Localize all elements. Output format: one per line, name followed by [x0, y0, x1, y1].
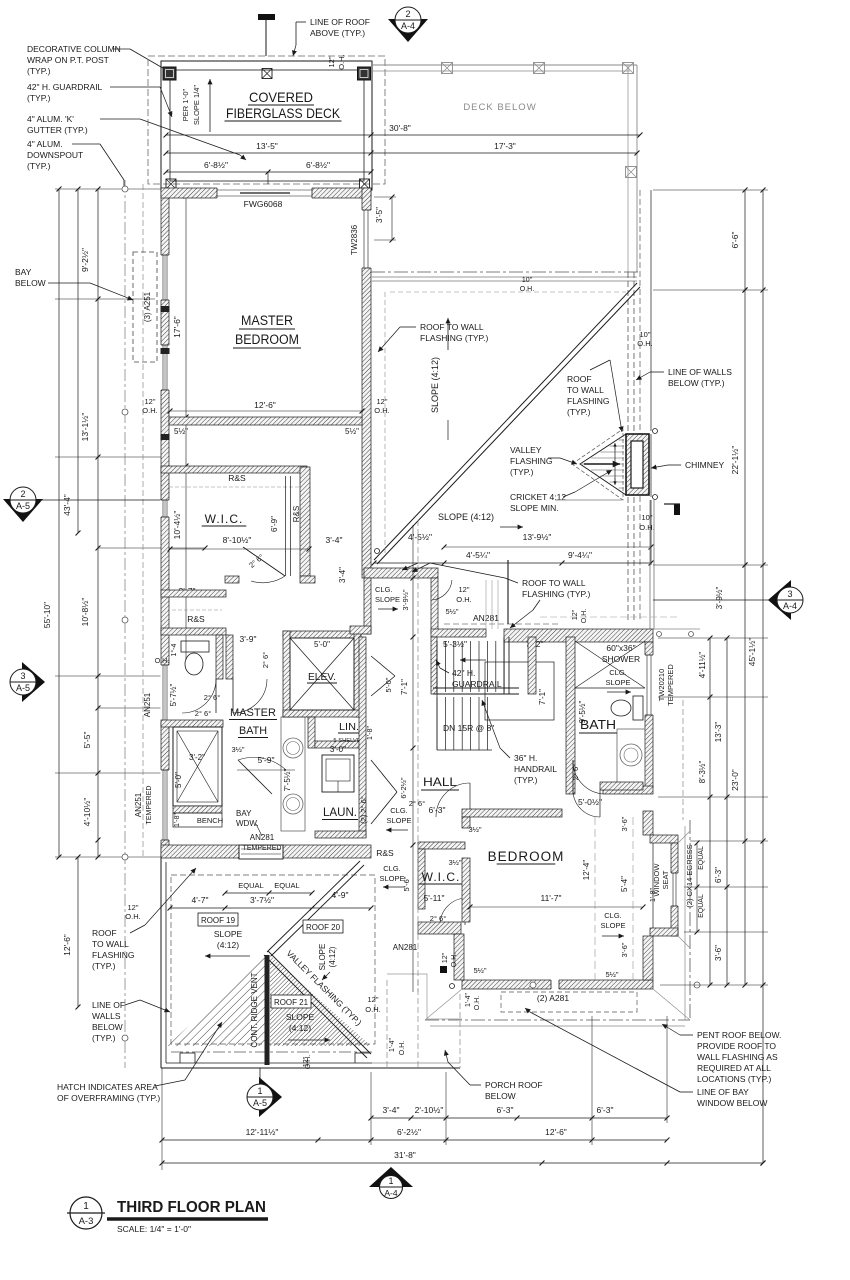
svg-text:ELEV.: ELEV.: [308, 671, 336, 683]
shower 60x36: [575, 687, 645, 689]
svg-text:A-4: A-4: [401, 21, 415, 31]
svg-text:HANDRAIL: HANDRAIL: [514, 764, 557, 774]
svg-text:SLOPE: SLOPE: [379, 874, 404, 883]
svg-text:3'-6": 3'-6": [620, 816, 629, 831]
small notches bottom: [179, 1053, 181, 1063]
svg-text:12'-11½": 12'-11½": [246, 1127, 279, 1137]
lower flight: [436, 697, 438, 750]
top dash-dot boundary: [371, 271, 640, 273]
section 1/A-5: [259, 1077, 282, 1117]
svg-text:SLOPE: SLOPE: [605, 678, 630, 687]
dash-dot grid line w circles: [124, 180, 126, 1068]
top wall w FWG6068: [161, 188, 371, 198]
svg-text:7'-1": 7'-1": [538, 689, 547, 705]
svg-text:O.H.: O.H.: [456, 595, 471, 604]
right extension lines: [653, 564, 768, 566]
svg-text:A-4: A-4: [384, 1188, 398, 1198]
svg-text:2° 6°: 2° 6°: [204, 693, 220, 702]
svg-text:FLASHING: FLASHING: [567, 396, 610, 406]
svg-text:12": 12": [572, 609, 579, 620]
svg-text:12'-4": 12'-4": [582, 860, 591, 881]
svg-text:TO WALL: TO WALL: [567, 385, 604, 395]
extension verticals bottom: [161, 1068, 163, 1170]
svg-text:3'-4": 3'-4": [338, 567, 347, 583]
svg-text:AN251: AN251: [134, 792, 143, 817]
svg-text:CRICKET 4:12: CRICKET 4:12: [510, 492, 566, 502]
svg-text:BENCH: BENCH: [197, 816, 223, 825]
svg-text:SLOPE: SLOPE: [286, 1012, 315, 1022]
svg-text:O.H.: O.H.: [142, 406, 157, 415]
svg-text:ROOF 20: ROOF 20: [306, 923, 341, 932]
bay window bump: [239, 845, 283, 859]
svg-text:TW20210: TW20210: [657, 669, 666, 702]
svg-text:BEDROOM: BEDROOM: [235, 332, 299, 347]
svg-text:SLOPE: SLOPE: [386, 816, 411, 825]
svg-text:60"x36": 60"x36": [606, 643, 635, 653]
covered deck guardrail: [161, 61, 372, 190]
svg-text:SCALE: 1/4" = 1'-0": SCALE: 1/4" = 1'-0": [117, 1224, 191, 1234]
svg-text:SLOPE (4:12): SLOPE (4:12): [438, 512, 494, 522]
svg-text:3'-9½": 3'-9½": [401, 589, 410, 611]
svg-text:ROOF TO WALL: ROOF TO WALL: [522, 578, 586, 588]
svg-text:6'-2½": 6'-2½": [397, 1127, 421, 1137]
right wall w TW2836: [362, 188, 371, 578]
svg-text:1: 1: [388, 1176, 393, 1186]
svg-text:SLOPE: SLOPE: [600, 921, 625, 930]
svg-text:17'-6": 17'-6": [172, 316, 182, 338]
svg-text:12": 12": [144, 397, 155, 406]
svg-text:DECK BELOW: DECK BELOW: [463, 102, 536, 113]
svg-text:6'-3": 6'-3": [429, 805, 446, 815]
svg-text:R&S: R&S: [292, 506, 301, 522]
svg-text:(TYP.): (TYP.): [92, 961, 116, 971]
svg-text:WDW.: WDW.: [236, 819, 259, 828]
right dashed wall-below lines: [627, 272, 629, 622]
svg-text:1'-4": 1'-4": [465, 993, 472, 1007]
svg-text:SLOPE MIN.: SLOPE MIN.: [510, 503, 559, 513]
svg-text:6'-6": 6'-6": [730, 232, 740, 249]
svg-text:LINE OF: LINE OF: [92, 1000, 125, 1010]
svg-text:12": 12": [442, 952, 449, 963]
svg-text:BAY: BAY: [236, 809, 252, 818]
svg-text:O.H.: O.H.: [451, 953, 458, 967]
svg-text:36" H.: 36" H.: [514, 753, 537, 763]
svg-text:(TYP.): (TYP.): [27, 66, 51, 76]
section marker 2/A-4: [388, 19, 428, 42]
svg-text:DECORATIVE COLUMN: DECORATIVE COLUMN: [27, 44, 121, 54]
svg-text:O.H.: O.H.: [399, 1041, 406, 1055]
bath bottom wall: [603, 786, 653, 794]
svg-text:5'-0": 5'-0": [384, 677, 393, 692]
bedroom interior dims: [170, 410, 362, 412]
svg-text:R&S: R&S: [228, 473, 246, 483]
svg-text:3½": 3½": [448, 858, 461, 867]
svg-text:8'-3½": 8'-3½": [698, 761, 707, 784]
svg-text:7'-5½": 7'-5½": [283, 769, 292, 792]
svg-text:5'-7½": 5'-7½": [169, 684, 178, 707]
svg-text:BATH: BATH: [239, 725, 267, 737]
svg-text:45'-1½": 45'-1½": [747, 638, 757, 667]
svg-text:TO WALL: TO WALL: [92, 939, 129, 949]
svg-text:6'-8½": 6'-8½": [204, 160, 228, 170]
svg-text:WALL FLASHING AS: WALL FLASHING AS: [697, 1052, 778, 1062]
leader lines: [113, 48, 130, 50]
svg-text:TEMPERED: TEMPERED: [243, 845, 282, 852]
svg-text:13'-3": 13'-3": [714, 722, 723, 743]
svg-text:30'-8": 30'-8": [389, 123, 411, 133]
svg-text:FLASHING (TYP.): FLASHING (TYP.): [522, 589, 590, 599]
svg-text:3½": 3½": [468, 825, 481, 834]
svg-text:LIN.: LIN.: [339, 721, 359, 733]
svg-text:12'-6": 12'-6": [62, 934, 72, 956]
right side 6-6 dim: [653, 189, 768, 191]
svg-text:REQUIRED AT ALL: REQUIRED AT ALL: [697, 1063, 771, 1073]
svg-text:(2) 2° 6°: (2) 2° 6°: [359, 796, 368, 824]
svg-text:2: 2: [405, 9, 410, 19]
svg-text:5'-0": 5'-0": [174, 772, 183, 788]
svg-text:CLG.: CLG.: [609, 668, 627, 677]
svg-text:DOWNSPOUT: DOWNSPOUT: [27, 150, 83, 160]
svg-text:W.I.C.: W.I.C.: [205, 512, 244, 526]
left exterior wall: [161, 188, 169, 857]
svg-text:R&S: R&S: [187, 614, 205, 624]
svg-text:SHOWER: SHOWER: [602, 654, 640, 664]
svg-text:4'-5¼": 4'-5¼": [466, 550, 490, 560]
chimney: [626, 434, 649, 495]
svg-text:HATCH INDICATES AREA: HATCH INDICATES AREA: [57, 1082, 158, 1092]
svg-text:17'-3": 17'-3": [494, 141, 516, 151]
svg-text:1'-8": 1'-8": [174, 813, 181, 827]
svg-text:3: 3: [20, 671, 25, 681]
svg-text:OF OVERFRAMING (TYP.): OF OVERFRAMING (TYP.): [57, 1093, 160, 1103]
svg-text:3'-6": 3'-6": [714, 945, 723, 961]
center landing + rails: [433, 687, 519, 689]
svg-text:(2) A281: (2) A281: [537, 993, 569, 1003]
bath fixtures: [611, 700, 631, 716]
svg-text:3'-4": 3'-4": [383, 1105, 400, 1115]
svg-text:PENT ROOF BELOW.: PENT ROOF BELOW.: [697, 1030, 781, 1040]
right wall + window seat: [643, 811, 653, 835]
svg-text:12": 12": [327, 56, 336, 67]
svg-text:(TYP.): (TYP.): [514, 775, 538, 785]
svg-text:EQUAL: EQUAL: [698, 894, 705, 918]
svg-text:23'-0": 23'-0": [730, 769, 740, 791]
svg-text:ROOF: ROOF: [567, 374, 592, 384]
porch roof below step outline: [387, 974, 462, 1019]
svg-text:(2) CX14 EGRESS: (2) CX14 EGRESS: [685, 844, 694, 907]
svg-text:5'-6": 5'-6": [402, 876, 411, 891]
svg-text:LINE OF BAY: LINE OF BAY: [697, 1087, 749, 1097]
svg-text:VALLEY: VALLEY: [510, 445, 542, 455]
svg-text:AN281: AN281: [393, 943, 418, 952]
svg-text:(TYP.): (TYP.): [567, 407, 591, 417]
bottom wall: [462, 980, 653, 989]
wic door: [243, 547, 285, 576]
svg-text:10'-4½": 10'-4½": [172, 511, 182, 540]
svg-text:5½": 5½": [345, 427, 359, 436]
svg-text:(TYP.): (TYP.): [92, 1033, 116, 1043]
svg-text:12": 12": [458, 585, 469, 594]
deck posts: [163, 67, 176, 80]
porch roof below lines: [386, 980, 388, 1068]
svg-text:O.H.: O.H.: [474, 996, 481, 1010]
svg-text:6'-3": 6'-3": [497, 1105, 514, 1115]
svg-text:PORCH ROOF: PORCH ROOF: [485, 1080, 543, 1090]
svg-text:2° 6°: 2° 6°: [261, 652, 270, 668]
toilet fixture: [181, 641, 209, 652]
svg-text:(4:12): (4:12): [217, 940, 239, 950]
svg-text:42" H.: 42" H.: [452, 668, 475, 678]
svg-text:2: 2: [20, 489, 25, 499]
svg-text:5½": 5½": [174, 427, 188, 436]
svg-text:(TYP.): (TYP.): [510, 467, 534, 477]
svg-text:BELOW: BELOW: [92, 1022, 123, 1032]
svg-text:5'-5": 5'-5": [82, 732, 92, 749]
svg-text:6'-3": 6'-3": [597, 1105, 614, 1115]
svg-text:BELOW: BELOW: [15, 278, 46, 288]
svg-text:8'-10½": 8'-10½": [223, 535, 252, 545]
svg-text:4'-11½": 4'-11½": [698, 652, 707, 679]
svg-text:3'-9½": 3'-9½": [715, 587, 724, 610]
svg-text:5'-11": 5'-11": [423, 893, 444, 903]
dashed overhang offsets: [384, 292, 386, 553]
svg-text:WALLS: WALLS: [92, 1011, 121, 1021]
svg-text:MASTER: MASTER: [230, 707, 276, 719]
svg-text:O.H.: O.H.: [374, 406, 389, 415]
svg-text:3'-0": 3'-0": [330, 745, 346, 754]
svg-text:EQUAL: EQUAL: [698, 846, 705, 870]
svg-text:O.H.: O.H.: [125, 912, 140, 921]
section 3/A-4: [768, 580, 791, 620]
svg-text:O.H.: O.H.: [520, 286, 534, 293]
svg-text:O.H.: O.H.: [337, 54, 346, 69]
svg-text:ROOF 21: ROOF 21: [274, 998, 309, 1007]
svg-text:(3) A251: (3) A251: [143, 291, 152, 322]
svg-text:1°-4: 1°-4: [170, 643, 178, 656]
dashed line of wall below (left): [142, 184, 144, 857]
svg-text:5'-0": 5'-0": [314, 640, 330, 649]
svg-text:W.I.C.: W.I.C.: [422, 870, 461, 884]
svg-text:4'-5½": 4'-5½": [408, 532, 432, 542]
outer boundary: [160, 857, 162, 1068]
svg-text:PER 1'-0": PER 1'-0": [181, 88, 190, 121]
svg-text:GUTTER (TYP.): GUTTER (TYP.): [27, 125, 88, 135]
svg-text:BELOW: BELOW: [485, 1091, 516, 1101]
svg-text:4" ALUM. 'K': 4" ALUM. 'K': [27, 114, 74, 124]
svg-text:CLG.: CLG.: [383, 864, 401, 873]
svg-text:SLOPE: SLOPE: [214, 929, 243, 939]
svg-text:13'-5": 13'-5": [256, 141, 278, 151]
laundry/hall wall piece: [315, 831, 366, 838]
svg-text:SLOPE: SLOPE: [375, 595, 400, 604]
svg-text:6'-2½": 6'-2½": [399, 777, 408, 799]
svg-text:SEAT: SEAT: [661, 870, 670, 889]
svg-text:A-5: A-5: [16, 501, 30, 511]
svg-text:THIRD FLOOR PLAN: THIRD FLOOR PLAN: [117, 1199, 266, 1216]
svg-text:12'-6": 12'-6": [254, 400, 276, 410]
svg-text:6'-8½": 6'-8½": [306, 160, 330, 170]
svg-text:12": 12": [127, 903, 138, 912]
svg-text:5'-3½": 5'-3½": [443, 639, 467, 649]
svg-text:CLG.: CLG.: [604, 911, 622, 920]
svg-text:2° 6°: 2° 6°: [409, 799, 425, 808]
svg-text:FLASHING: FLASHING: [510, 456, 553, 466]
svg-text:O.H.: O.H.: [155, 658, 169, 665]
svg-text:9'-5½": 9'-5½": [578, 701, 587, 724]
svg-text:GUARDRAIL: GUARDRAIL: [452, 679, 502, 689]
svg-text:AN251: AN251: [143, 692, 152, 717]
svg-text:3½": 3½": [231, 745, 244, 754]
svg-text:TEMPERED: TEMPERED: [666, 664, 675, 706]
svg-text:12": 12": [367, 995, 378, 1004]
svg-text:LINE OF ROOF: LINE OF ROOF: [310, 17, 370, 27]
svg-text:LINE OF WALLS: LINE OF WALLS: [668, 367, 732, 377]
section 1/A-4 bottom: [369, 1167, 413, 1187]
svg-text:PROVIDE ROOF TO: PROVIDE ROOF TO: [697, 1041, 776, 1051]
svg-text:4'-9": 4'-9": [332, 890, 349, 900]
svg-text:4'-7": 4'-7": [192, 895, 209, 905]
svg-text:LOCATIONS (TYP.): LOCATIONS (TYP.): [697, 1074, 771, 1084]
svg-text:(4:12): (4:12): [328, 946, 337, 967]
svg-text:3'-4": 3'-4": [326, 535, 343, 545]
svg-text:(4:12): (4:12): [289, 1023, 311, 1033]
svg-text:MASTER: MASTER: [241, 313, 293, 328]
svg-text:5'-9": 5'-9": [258, 755, 275, 765]
svg-text:A-4: A-4: [783, 601, 797, 611]
svg-text:BAY: BAY: [15, 267, 32, 277]
svg-text:43'-4": 43'-4": [62, 494, 72, 516]
svg-text:6'-3": 6'-3": [714, 867, 723, 883]
porch wall-below dashed verticals through hall: [412, 525, 414, 992]
svg-text:42" H. GUARDRAIL: 42" H. GUARDRAIL: [27, 82, 103, 92]
wall below toilet room: [161, 720, 223, 727]
svg-text:2° 6°: 2° 6°: [571, 764, 580, 780]
left horizontal extension lines: [55, 188, 161, 190]
svg-text:BEDROOM: BEDROOM: [488, 849, 565, 864]
bench: [173, 806, 222, 813]
bay below dashed box + note: [133, 252, 157, 362]
svg-text:55'-10": 55'-10": [42, 602, 52, 628]
laundry double doors: [371, 760, 397, 792]
hatched overframing triangles: [167, 955, 266, 1046]
svg-text:COVERED: COVERED: [249, 89, 313, 105]
bath door: [572, 760, 574, 794]
elev lobby bifold doors: [371, 656, 395, 676]
section markers left: [3, 499, 43, 522]
svg-text:ROOF: ROOF: [92, 928, 117, 938]
left wall: [462, 817, 470, 828]
svg-text:FIBERGLASS DECK: FIBERGLASS DECK: [226, 105, 341, 121]
svg-text:10'-8½": 10'-8½": [80, 598, 90, 627]
svg-text:3: 3: [787, 589, 792, 599]
svg-text:(TYP.): (TYP.): [27, 161, 51, 171]
svg-text:10": 10": [522, 277, 533, 284]
roof labels: [198, 913, 238, 926]
door bath->bedroom: [599, 790, 601, 817]
svg-text:1: 1: [83, 1201, 89, 1212]
top wall: [462, 809, 562, 817]
svg-text:1'-4": 1'-4": [389, 1038, 396, 1052]
svg-text:AN281: AN281: [250, 833, 275, 842]
svg-text:9'-2½": 9'-2½": [80, 248, 90, 272]
bath door 45deg: [238, 760, 272, 794]
svg-text:1'-8": 1'-8": [650, 888, 657, 902]
downspout black mark top: [258, 14, 275, 20]
svg-text:CONT. RIDGE VENT: CONT. RIDGE VENT: [250, 972, 259, 1047]
svg-text:A-3: A-3: [79, 1216, 94, 1227]
svg-text:5'-0½": 5'-0½": [578, 797, 602, 807]
cricket: [580, 434, 626, 495]
svg-text:SLOPE (4:12): SLOPE (4:12): [430, 357, 440, 413]
svg-text:TEMPERED: TEMPERED: [146, 786, 153, 825]
svg-text:FWG6068: FWG6068: [244, 199, 283, 209]
svg-text:9'-4¼": 9'-4¼": [568, 550, 592, 560]
svg-text:EQUAL: EQUAL: [274, 881, 299, 890]
svg-text:SLOPE 1/4": SLOPE 1/4": [192, 85, 201, 126]
svg-text:WINDOW BELOW: WINDOW BELOW: [697, 1098, 767, 1108]
svg-text:O.H.: O.H.: [581, 609, 588, 623]
svg-text:CLG.: CLG.: [390, 806, 408, 815]
valley diagonals: [267, 861, 360, 952]
AN281 dashed band: [444, 623, 560, 625]
svg-text:BELOW (TYP.): BELOW (TYP.): [668, 378, 725, 388]
ridge vent bar: [265, 955, 270, 1065]
svg-text:3'-2": 3'-2": [189, 753, 205, 762]
roof edge below chimney: [555, 499, 622, 501]
big valley diagonal: [375, 549, 380, 554]
masterbath door wall + arc: [226, 635, 233, 679]
svg-text:31'-8": 31'-8": [394, 1150, 416, 1160]
svg-text:ROOF TO WALL: ROOF TO WALL: [420, 322, 484, 332]
svg-text:ABOVE (TYP.): ABOVE (TYP.): [310, 28, 365, 38]
wall end blocks on left wall: [161, 306, 170, 312]
svg-text:CHIMNEY: CHIMNEY: [685, 460, 725, 470]
svg-text:(TYP.): (TYP.): [27, 93, 51, 103]
svg-text:12'-6": 12'-6": [545, 1127, 567, 1137]
svg-text:2'-10½": 2'-10½": [415, 1105, 444, 1115]
svg-text:5'-4": 5'-4": [620, 876, 629, 892]
svg-text:22'-1½": 22'-1½": [730, 446, 740, 475]
svg-text:11'-7": 11'-7": [540, 893, 561, 903]
svg-text:A-5: A-5: [253, 1098, 267, 1108]
svg-text:CLG.: CLG.: [375, 585, 393, 594]
svg-text:O.H.: O.H.: [639, 523, 654, 532]
svg-text:7'-1": 7'-1": [400, 679, 409, 695]
svg-text:10": 10": [639, 330, 650, 339]
svg-text:12": 12": [376, 397, 387, 406]
svg-text:13'-1½": 13'-1½": [80, 413, 90, 442]
svg-text:13'-9½": 13'-9½": [523, 532, 552, 542]
dashed inset: [171, 875, 375, 1044]
svg-text:HALL: HALL: [423, 775, 457, 789]
svg-text:6'-9": 6'-9": [270, 516, 279, 532]
svg-text:EQUAL: EQUAL: [238, 881, 263, 890]
svg-text:3'-5": 3'-5": [375, 207, 384, 223]
right roof-band edge lines: [649, 500, 651, 629]
svg-text:O.H.: O.H.: [637, 339, 652, 348]
vanity w 2 sinks: [281, 717, 305, 831]
svg-text:4" ALUM.: 4" ALUM.: [27, 139, 63, 149]
svg-text:1'-8": 1'-8": [367, 726, 374, 740]
svg-text:5½": 5½": [605, 970, 618, 979]
stair treads upper flight: [436, 641, 438, 692]
svg-text:FLASHING: FLASHING: [92, 950, 135, 960]
svg-text:SLOPE: SLOPE: [318, 944, 327, 971]
master bedroom bottom wall: [169, 417, 362, 425]
svg-text:FLASHING (TYP.): FLASHING (TYP.): [420, 333, 488, 343]
svg-text:1: 1: [257, 1086, 262, 1096]
svg-text:5½": 5½": [473, 966, 486, 975]
